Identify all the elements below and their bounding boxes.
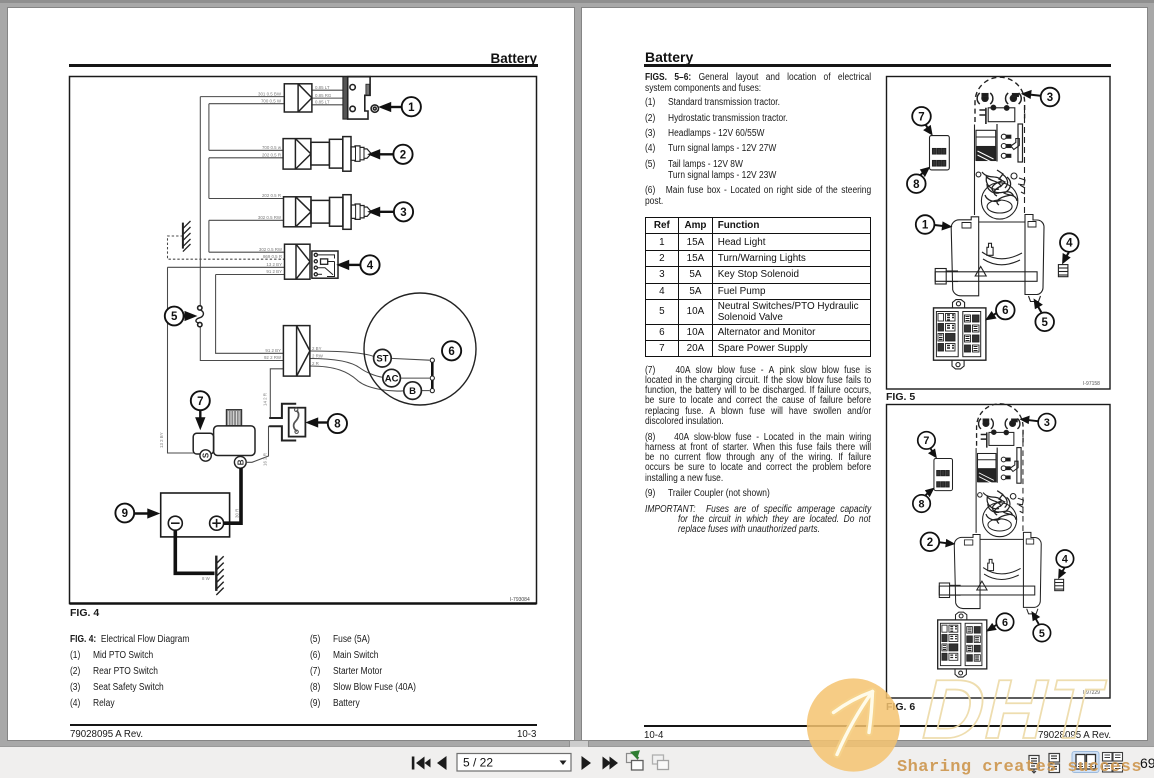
plug P2 rear PTO bbox=[311, 137, 371, 172]
switch S1 Mid PTO bbox=[343, 77, 379, 119]
connector C1 bbox=[284, 84, 312, 112]
fuse F5 bbox=[196, 306, 204, 327]
LEFT PAGE CONTENT bbox=[437, 51, 537, 66]
next view button bbox=[653, 755, 669, 770]
wire dashed ground lead 869R bbox=[168, 236, 285, 259]
callout arrows bbox=[134, 104, 401, 517]
figure box FIG.5 frame bbox=[887, 77, 1111, 390]
wire net 302RW segment bbox=[208, 220, 210, 252]
facing continuous icon bbox=[1103, 753, 1123, 773]
terminal AC bbox=[383, 369, 401, 387]
continuous mode icon bbox=[1049, 754, 1060, 773]
wire row4 relay leads bbox=[209, 251, 285, 253]
connector C2 bbox=[283, 139, 311, 170]
wire row1 left bbox=[200, 96, 284, 98]
plug P3 seat safety bbox=[311, 195, 371, 230]
wire B to terminal bar bbox=[422, 390, 430, 392]
first page button bbox=[412, 757, 415, 770]
wire net 92RW below fuse5 bbox=[200, 327, 283, 361]
watermark circle bbox=[807, 678, 900, 771]
wire ST to terminal bar bbox=[391, 358, 429, 360]
battery negative cable bbox=[175, 530, 214, 573]
callout 7 arrow bbox=[199, 411, 201, 422]
next page button bbox=[582, 756, 592, 770]
callout 2 arrow bbox=[376, 153, 393, 155]
FIG.6 tractor hydrostatic bbox=[913, 404, 1074, 677]
callout 2 circle bbox=[921, 533, 940, 552]
wire net 91BY bbox=[216, 275, 284, 354]
page number dropdown bbox=[457, 754, 571, 772]
terminal S bbox=[200, 450, 211, 461]
key switch circle U6 bbox=[364, 293, 476, 405]
terminal B bbox=[404, 382, 422, 400]
single page mode icon bbox=[1029, 756, 1039, 774]
wire AC to terminal bar bbox=[401, 377, 430, 379]
main switch connector C6 bbox=[283, 326, 310, 377]
RIGHT PAGE CONTENT bbox=[645, 49, 693, 65]
callout 1 arrow bbox=[387, 106, 401, 108]
ground chassis upper bbox=[183, 221, 191, 252]
facing pages icon (selected) bbox=[1072, 752, 1099, 773]
wire fuse8 to starter B 16-2R bbox=[247, 426, 282, 462]
wire net 700W segment bbox=[208, 104, 210, 151]
wire net 301BW vertical bus bbox=[199, 97, 201, 306]
connector C4 bbox=[285, 244, 311, 279]
wire value labels bbox=[258, 91, 283, 360]
terminal bar bbox=[431, 360, 434, 390]
wire row2 left bbox=[209, 149, 283, 151]
callout circles bbox=[115, 97, 461, 522]
wire B lead 2R bbox=[310, 366, 404, 391]
ground chassis battery bbox=[216, 556, 223, 595]
callout 4 arrow bbox=[345, 264, 360, 266]
slow blow fuse F8 bbox=[269, 404, 305, 441]
right page bbox=[581, 7, 1148, 741]
callout 8 arrow bbox=[314, 421, 328, 423]
callout 3 arrow bbox=[376, 211, 394, 213]
wire main switch to fuse 14-2R bbox=[270, 369, 283, 418]
FIG.5 tractor standard bbox=[907, 77, 1079, 369]
wire net 202R segment bbox=[208, 158, 210, 199]
prev page button bbox=[437, 756, 447, 770]
battery positive cable bbox=[224, 468, 241, 523]
relay K4 bbox=[312, 251, 338, 278]
callout 9 arrow bbox=[134, 512, 151, 514]
wire ST lead 2BY bbox=[310, 351, 374, 357]
starter motor M7 bbox=[193, 410, 255, 469]
connector C3 bbox=[284, 197, 312, 227]
watermark arrow bbox=[834, 692, 873, 755]
svg-text:69: 69 bbox=[1140, 755, 1154, 771]
callout 5 arrow bbox=[184, 315, 188, 317]
wire row3 left bbox=[209, 198, 284, 200]
wire row1 right bbox=[312, 89, 343, 91]
figure box FIG.6 frame bbox=[887, 405, 1111, 699]
left page bbox=[7, 7, 575, 741]
toolbar bbox=[0, 746, 1154, 778]
svg-text:5 / 22: 5 / 22 bbox=[463, 756, 493, 770]
previous view button bbox=[627, 752, 644, 771]
legend bbox=[70, 634, 189, 645]
terminal ST bbox=[374, 349, 392, 367]
last page button bbox=[603, 757, 612, 770]
figure box FIG.4 frame bbox=[70, 77, 537, 604]
watermark DHT letters bbox=[913, 663, 1113, 757]
wire AC lead 2RW bbox=[310, 359, 383, 378]
terminal B stud bbox=[234, 456, 246, 468]
callout 1 circle bbox=[916, 215, 935, 234]
wire net 13BY to starter bbox=[168, 267, 194, 453]
battery G9 bbox=[161, 493, 230, 537]
